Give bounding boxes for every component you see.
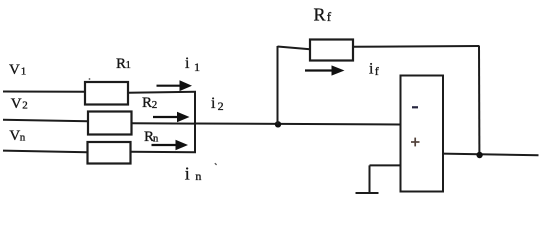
current arrow in [152,140,189,150]
label i1 [185,55,200,74]
svg-text:R: R [142,95,152,111]
current arrow i1 [157,80,193,91]
wire V2 input [3,120,88,122]
wire Rn to bus [131,151,197,154]
wire V1 input [3,91,85,93]
svg-text:n: n [153,134,159,145]
svg-text:R: R [314,4,326,24]
label if [369,60,379,78]
svg-text:R: R [116,56,126,72]
wire R1 to bus [128,92,196,93]
resistor R2 [88,112,132,135]
label R1 [116,56,131,72]
svg-text:i: i [369,60,374,77]
label V1 [9,62,26,78]
wire R2 to bus [132,122,197,124]
resistor Rn [88,142,131,164]
svg-text:2: 2 [152,99,158,111]
label V2 [11,96,28,112]
wire node up to Rf [277,46,279,124]
svg-text:2: 2 [22,100,28,112]
svg-text:1: 1 [21,65,27,77]
svg-text:i: i [185,164,190,184]
label i2 [211,95,224,113]
svg-text:1: 1 [126,60,131,71]
wire Vn input [3,151,88,153]
label plus [411,138,420,147]
label in [185,164,202,184]
svg-text:f: f [327,9,332,24]
label Vn [9,128,25,144]
wire ground to op-amp noninverting [370,164,401,166]
svg-text:i: i [211,95,216,112]
svg-text:i: i [185,55,190,72]
ground [356,165,379,193]
label Rf [314,4,332,24]
wire bus to op-amp inverting input [195,124,400,125]
resistor R1 [85,82,128,105]
wire to Rf left [278,47,311,50]
tick mark [215,163,217,165]
label Rn [144,129,159,145]
svg-text:f: f [375,64,379,78]
op-amp U1 [401,76,444,192]
svg-text:2: 2 [218,99,224,113]
svg-text:n: n [20,132,26,144]
node junction dot [275,121,281,127]
svg-text:1: 1 [194,60,200,74]
node output dot [476,152,482,158]
wire Rf right to feedback corner [353,45,480,48]
output wire [443,154,539,156]
label minus [412,106,418,108]
speck above R1 [89,78,91,80]
wire feedback vertical right [478,46,480,155]
svg-text:V: V [11,96,22,112]
resistor Rf [310,40,353,61]
svg-text:n: n [195,169,201,183]
bus wire vertical [194,92,196,153]
svg-text:V: V [9,62,20,78]
current arrow i2 [153,112,190,123]
current arrow if [305,65,345,75]
label R2 [142,95,157,111]
